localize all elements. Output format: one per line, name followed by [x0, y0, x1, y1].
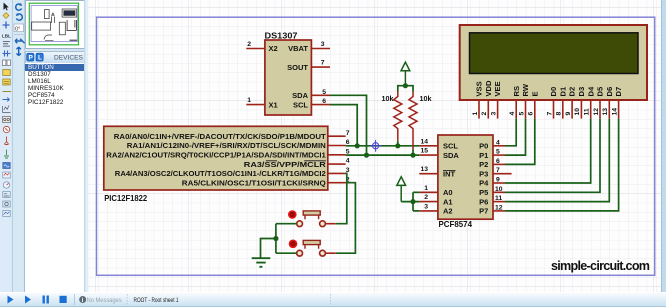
svg-text:13: 13 — [602, 108, 609, 116]
PCF pin P1 (5) — [479, 149, 505, 160]
svg-text:4: 4 — [509, 112, 516, 116]
svg-text:D5: D5 — [596, 86, 605, 96]
svg-text:L: L — [38, 55, 42, 62]
LCD pin D0 (7) — [546, 87, 558, 119]
wire DS1307 SCL to SCL net — [330, 105, 357, 146]
svg-text:4: 4 — [496, 139, 500, 146]
svg-text:A1: A1 — [443, 197, 453, 206]
svg-text:D0: D0 — [549, 87, 558, 97]
PCF pin P0 (4) — [479, 139, 505, 150]
svg-text:PCF8574: PCF8574 — [439, 219, 473, 229]
LCD pin D3 (10) — [574, 87, 586, 119]
DS1307 pin X1 (1) — [246, 97, 277, 109]
junction SDA/DS1307 — [364, 153, 369, 158]
svg-text:0°: 0° — [15, 26, 20, 32]
svg-text:2: 2 — [247, 41, 251, 48]
svg-text:X2: X2 — [269, 44, 278, 53]
junction R2/SDA — [410, 153, 415, 158]
svg-text:11: 11 — [584, 108, 591, 115]
resistor R1 10k (left pull-up) — [394, 92, 402, 141]
svg-text:1: 1 — [472, 112, 479, 116]
ground — [252, 258, 271, 267]
svg-text:6: 6 — [528, 112, 535, 116]
svg-text:3: 3 — [321, 41, 325, 48]
svg-text:P5: P5 — [479, 188, 488, 197]
IC U1 DS1307 body — [265, 31, 312, 115]
svg-text:15: 15 — [420, 148, 428, 155]
wire SDA net horizontal (PIC RA2 to PCF SDA) — [346, 154, 420, 156]
svg-text:3: 3 — [490, 112, 497, 116]
splitter divider — [84, 0, 90, 292]
svg-text:P7: P7 — [479, 207, 488, 216]
svg-text:DEVICES: DEVICES — [54, 55, 84, 62]
svg-text:VBAT: VBAT — [288, 44, 308, 53]
junction ground bus — [273, 236, 278, 241]
PCF pin A1 (2) — [419, 194, 452, 206]
wire P7 to LCD D7 — [505, 119, 619, 211]
svg-text:10k: 10k — [420, 94, 432, 103]
value label 10k (R1) — [382, 94, 394, 103]
svg-text:RA0/AN0/C1IN+/VREF-/DACOUT/TX/: RA0/AN0/C1IN+/VREF-/DACOUT/TX/CK/SDO/P1B… — [114, 132, 327, 141]
LCD pin D7 (14) — [611, 87, 623, 119]
svg-text:P1: P1 — [479, 151, 488, 160]
svg-text:DS1307: DS1307 — [265, 31, 298, 40]
svg-text:SDA: SDA — [443, 151, 459, 160]
svg-text:13: 13 — [420, 166, 428, 173]
svg-text:6: 6 — [346, 139, 350, 146]
wire DS1307 SDA to SDA net — [330, 95, 367, 155]
svg-text:SCL: SCL — [293, 100, 308, 109]
svg-text:7: 7 — [321, 60, 325, 67]
svg-text:6: 6 — [496, 158, 500, 165]
PIC pin RA3 (4) — [244, 158, 350, 169]
svg-text:A2: A2 — [443, 207, 453, 216]
junction R1/SCL — [395, 143, 400, 148]
LCD pin VDD (2) — [481, 80, 493, 119]
right window strip — [661, 0, 666, 292]
svg-text:7: 7 — [496, 167, 500, 174]
svg-text:P0: P0 — [479, 142, 488, 151]
DS1307 pin SDA (5) — [292, 89, 330, 100]
PCF pin SCL (14) — [419, 138, 458, 150]
svg-text:14: 14 — [611, 108, 618, 116]
PCF pin A2 (3) — [419, 203, 452, 215]
svg-text:12: 12 — [495, 204, 503, 211]
PCF pin P7 (12) — [479, 204, 505, 215]
svg-text:11: 11 — [495, 195, 502, 202]
svg-text:5: 5 — [518, 112, 525, 116]
LCD pin RS (4) — [509, 86, 521, 119]
svg-text:RW: RW — [521, 83, 530, 96]
svg-text:5: 5 — [322, 89, 326, 96]
PCF pin P6 (11) — [479, 195, 505, 206]
svg-text:RA2/AN2/C1OUT/SRQ/T0CKI/CCP1/P: RA2/AN2/C1OUT/SRQ/T0CKI/CCP1/P1A/SDA/SDI… — [106, 151, 326, 160]
PCF pin SDA (15) — [419, 148, 459, 160]
wire resistor tops to VCC — [398, 86, 413, 92]
button SW2 — [289, 240, 336, 257]
wire to ground symbol — [261, 239, 276, 258]
svg-text:5: 5 — [346, 148, 350, 155]
wire P6 to LCD D6 — [505, 119, 609, 202]
PCF pin A0 (1) — [419, 185, 452, 197]
svg-text:P6: P6 — [479, 197, 488, 206]
svg-text:9: 9 — [565, 112, 572, 116]
svg-text:D2: D2 — [568, 87, 577, 97]
svg-text:RA4/AN3/OSC2/CLKOUT/T1OSO/C1IN: RA4/AN3/OSC2/CLKOUT/T1OSO/C1IN1-/CLKR/T1… — [115, 169, 326, 178]
IC U2 PIC12F1822 body — [104, 126, 328, 203]
LCD pin D6 (13) — [602, 87, 614, 119]
svg-text:SOUT: SOUT — [287, 63, 308, 72]
power VCC arrow (address pins) — [397, 177, 406, 202]
wire SW1 to ground bus — [276, 223, 297, 225]
DS1307 pin X2 (2) — [246, 41, 277, 53]
PCF pin INT (13) — [419, 166, 455, 178]
svg-text:SDA: SDA — [292, 91, 308, 100]
svg-text:SCL: SCL — [443, 142, 458, 151]
sheet border — [97, 17, 655, 275]
PIC pin RA0 (7) — [114, 130, 350, 141]
svg-text:No Messages: No Messages — [87, 297, 122, 304]
PCF pin P4 (9) — [479, 177, 505, 188]
LCD pin RW (5) — [518, 83, 530, 118]
left mode-icon toolbar — [0, 0, 13, 292]
svg-text:12: 12 — [593, 108, 600, 116]
svg-text:simple-circuit.com: simple-circuit.com — [551, 259, 650, 273]
button SW1 — [288, 210, 336, 226]
svg-text:P: P — [28, 55, 33, 62]
svg-text:9: 9 — [496, 177, 500, 184]
LCD pin D2 (9) — [565, 87, 577, 119]
svg-text:RA1/AN1/C12IN0-/VREF+/SRI/RX/D: RA1/AN1/C12IN0-/VREF+/SRI/RX/DT/SCL/SCK/… — [127, 141, 326, 150]
svg-text:4: 4 — [346, 158, 350, 165]
svg-text:10: 10 — [495, 186, 503, 193]
node origin marker (blue) — [370, 140, 382, 152]
svg-text:D7: D7 — [614, 87, 623, 97]
bottom status bar — [0, 292, 666, 307]
wire SCL net horizontal (PIC RA1 to PCF SCL) — [346, 145, 420, 147]
wire P5 to LCD D5 — [505, 119, 600, 193]
value label 10k (R2) — [420, 94, 432, 103]
svg-text:P4: P4 — [479, 179, 489, 188]
devices list — [24, 63, 86, 292]
wire A0-A2 tie — [401, 192, 419, 211]
PIC pin RA2 (5) — [106, 148, 349, 159]
wire R1 bottom to SCL net — [397, 141, 399, 146]
LCD pin VEE (3) — [490, 81, 502, 118]
wire PIC RA5 to button SW2 — [336, 183, 356, 254]
svg-text:VEE: VEE — [493, 81, 502, 96]
PCF pin P5 (10) — [479, 186, 505, 197]
svg-text:10: 10 — [574, 108, 581, 116]
svg-text:14: 14 — [420, 138, 428, 145]
PCF pin P3 (7) — [479, 167, 511, 178]
svg-text:2: 2 — [481, 112, 488, 116]
LCD pin D5 (12) — [593, 86, 605, 119]
svg-text:D4: D4 — [586, 86, 595, 96]
wire SW2 to ground bus — [276, 252, 297, 254]
DS1307 pin SOUT (7) — [287, 60, 330, 72]
DS1307 pin SCL (6) — [293, 98, 330, 109]
junction A1 tie — [410, 199, 415, 204]
LCD pin E (6) — [528, 91, 540, 118]
svg-text:2: 2 — [424, 194, 428, 201]
LCD pin D4 (11) — [584, 86, 596, 119]
svg-text:ROOT - Root sheet 1: ROOT - Root sheet 1 — [134, 297, 179, 304]
svg-text:7: 7 — [346, 130, 350, 137]
PIC pin RA5 (2) — [182, 176, 350, 187]
wire button ground bus vertical — [275, 224, 277, 254]
power VCC arrow (pull-ups) — [401, 62, 410, 85]
LCD pin D1 (8) — [556, 86, 568, 119]
svg-text:E: E — [530, 91, 539, 96]
wire P2 to LCD E — [505, 119, 535, 165]
svg-text:RA5/CLKIN/OSC1/T1OSI/T1CKI/SRN: RA5/CLKIN/OSC1/T1OSI/T1CKI/SRNQ — [182, 178, 326, 187]
svg-text:1: 1 — [247, 97, 251, 104]
wire P1 to LCD RW — [505, 119, 526, 156]
svg-text:P3: P3 — [479, 169, 488, 178]
resistor R2 10k (right pull-up) — [409, 92, 417, 150]
svg-text:VDD: VDD — [484, 80, 493, 97]
PCF pin P2 (6) — [479, 158, 505, 169]
LCD LM016L body — [460, 25, 647, 100]
watermark simple-circuit.com — [551, 259, 650, 273]
PIC pin RA4 (3) — [115, 167, 350, 178]
left panel chrome background — [0, 0, 88, 292]
wire PIC RA4 to button SW1 — [336, 173, 347, 223]
svg-text:PIC12F1822: PIC12F1822 — [104, 193, 147, 203]
svg-text:D6: D6 — [605, 87, 614, 97]
component preview window — [25, 0, 86, 49]
svg-text:8: 8 — [556, 112, 563, 116]
junction VCC/resistors — [403, 83, 408, 88]
svg-text:5: 5 — [496, 149, 500, 156]
svg-text:P2: P2 — [479, 160, 488, 169]
svg-text:7: 7 — [546, 112, 553, 116]
DS1307 pin VBAT (3) — [288, 41, 330, 53]
svg-text:6: 6 — [322, 98, 326, 105]
wire P4 to LCD D4 — [505, 119, 591, 183]
wire P0 to LCD RS — [505, 119, 516, 146]
devices header with P/L buttons — [25, 51, 86, 65]
svg-text:3: 3 — [424, 203, 428, 210]
wire R2 bottom to SDA net — [412, 150, 414, 156]
svg-text:X1: X1 — [269, 100, 278, 109]
IC U3 PCF8574 body — [438, 135, 493, 229]
svg-text:D3: D3 — [577, 87, 586, 97]
svg-text:1: 1 — [424, 185, 428, 192]
LCD pin VSS (1) — [472, 81, 484, 118]
PIC pin RA1 (6) — [127, 139, 350, 150]
rotate/mirror toolbar — [13, 0, 25, 292]
junction SCL/DS1307 — [355, 143, 360, 148]
svg-text:LBL: LBL — [2, 34, 11, 39]
svg-text:RS: RS — [512, 86, 521, 97]
svg-text:D1: D1 — [558, 86, 567, 96]
svg-text:VSS: VSS — [475, 81, 484, 96]
svg-text:10k: 10k — [382, 94, 394, 103]
svg-text:A0: A0 — [443, 188, 453, 197]
